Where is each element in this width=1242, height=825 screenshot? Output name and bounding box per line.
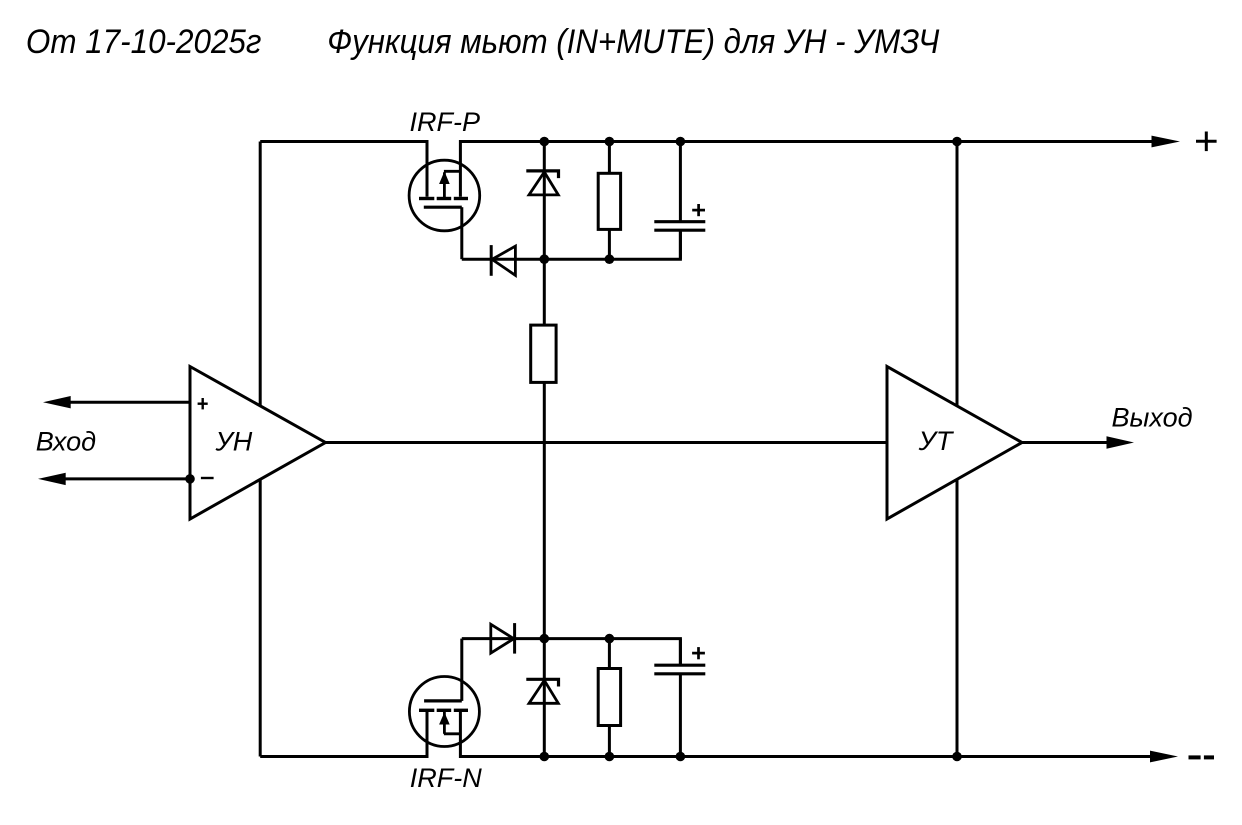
svg-text:Функция мьют (IN+MUTE) для УН: Функция мьют (IN+MUTE) для УН - УМЗЧ — [327, 23, 939, 61]
svg-text:Выход: Выход — [1112, 402, 1193, 432]
svg-text:Вход: Вход — [36, 426, 96, 456]
svg-text:УН: УН — [215, 427, 253, 457]
svg-text:IRF-N: IRF-N — [410, 763, 482, 793]
svg-text:IRF-P: IRF-P — [410, 107, 481, 137]
svg-text:УТ: УТ — [918, 426, 955, 456]
svg-text:От 17-10-2025г: От 17-10-2025г — [26, 23, 262, 61]
